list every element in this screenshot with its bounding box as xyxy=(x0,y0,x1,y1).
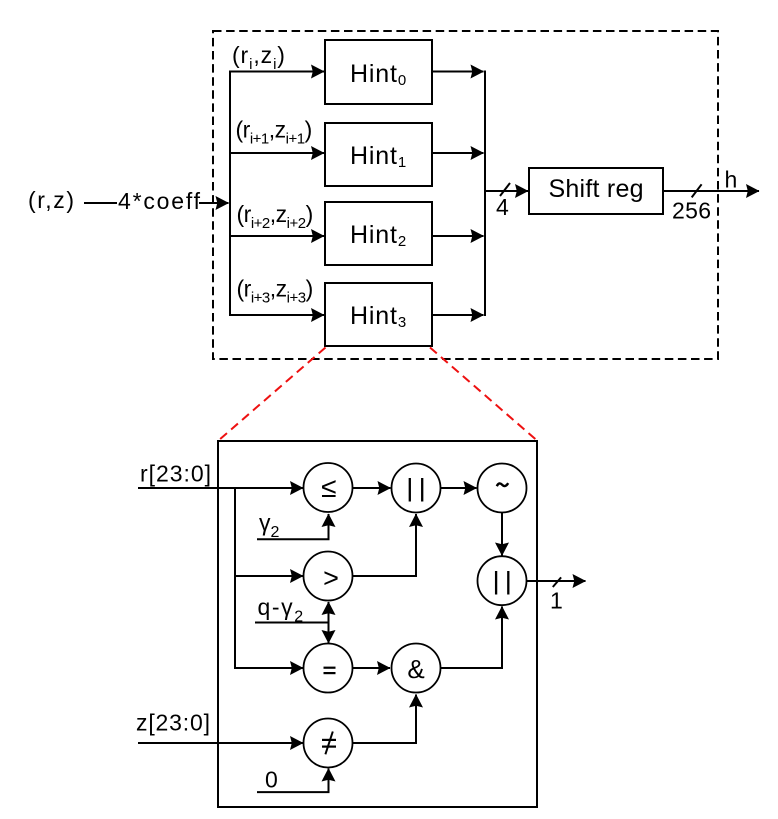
wire 0 underline into NE xyxy=(257,769,329,793)
OR1 circle xyxy=(392,464,441,513)
wire GT to OR1 xyxy=(353,514,417,576)
box Hint2 xyxy=(325,202,432,265)
wire AND to OR2 xyxy=(441,607,503,669)
bus width slash 1 xyxy=(553,577,561,587)
wire LE to OR1 xyxy=(353,487,391,489)
box Hint3 xyxy=(325,283,432,346)
box Hint0 xyxy=(325,40,432,104)
red zoom dashed line left xyxy=(219,348,326,441)
wire z input xyxy=(138,742,303,744)
wire Hint0 output xyxy=(432,71,484,73)
wire Hint1 output xyxy=(432,152,484,154)
wire r input xyxy=(138,487,303,489)
wire r branch into gt xyxy=(235,575,303,577)
wire NOT to OR2 xyxy=(501,513,503,556)
comparator EQ circle xyxy=(304,644,353,693)
svg-text:Shift reg: Shift reg xyxy=(549,175,644,203)
wire arrow into input bus xyxy=(199,202,229,204)
wire OR1 to NOT xyxy=(441,487,477,489)
svg-text:0: 0 xyxy=(265,767,278,793)
svg-text:≤: ≤ xyxy=(321,472,336,503)
wire q-gamma2 underline xyxy=(255,622,329,624)
bus width slash 4 xyxy=(500,183,510,196)
OR2 output circle xyxy=(478,556,527,605)
svg-text:r[23:0]: r[23:0] xyxy=(140,461,211,487)
wire into Hint0 xyxy=(229,71,324,73)
wire Hint3 output xyxy=(432,314,484,316)
box Shift reg xyxy=(529,168,663,214)
svg-text:4*coeff: 4*coeff xyxy=(118,188,201,214)
wire into Hint1 xyxy=(229,152,324,154)
bus width slash 256 xyxy=(692,184,702,197)
svg-text:&: & xyxy=(407,654,424,684)
wire shift reg output h xyxy=(663,190,759,192)
wire from (r,z) xyxy=(84,202,117,204)
output bus vertical wire xyxy=(484,71,486,317)
input bus vertical wire xyxy=(229,71,231,317)
wire bus to shift reg xyxy=(485,190,528,192)
svg-text:(r,z): (r,z) xyxy=(28,187,74,213)
svg-text:>: > xyxy=(323,563,339,593)
dashed module boundary box xyxy=(213,31,718,359)
NOT circle xyxy=(478,464,527,513)
wire into Hint3 xyxy=(229,314,324,316)
wire NE to AND xyxy=(353,695,417,744)
wire EQ to AND xyxy=(353,667,391,669)
svg-text:h: h xyxy=(725,167,738,193)
wire gamma2 underline into LE xyxy=(257,514,329,539)
wire into Hint2 xyxy=(229,235,324,237)
svg-text:z[23:0]: z[23:0] xyxy=(136,710,210,736)
svg-text:256: 256 xyxy=(672,198,711,224)
box Hint1 xyxy=(325,123,432,186)
svg-text:4: 4 xyxy=(496,194,509,220)
red zoom dashed line right xyxy=(430,348,537,441)
wire r branch into eq xyxy=(235,667,303,669)
comparator NE circle xyxy=(304,719,353,768)
wire OR2 output xyxy=(527,580,586,582)
Hint detail box xyxy=(218,441,537,807)
svg-text:1: 1 xyxy=(550,588,563,614)
AND circle xyxy=(392,644,441,693)
comparator GT circle xyxy=(304,552,353,601)
comparator LE circle xyxy=(304,463,353,512)
wire Hint2 output xyxy=(432,235,484,237)
wire r branch vertical xyxy=(234,488,236,669)
wire q-gamma2 double arrow xyxy=(328,602,330,643)
